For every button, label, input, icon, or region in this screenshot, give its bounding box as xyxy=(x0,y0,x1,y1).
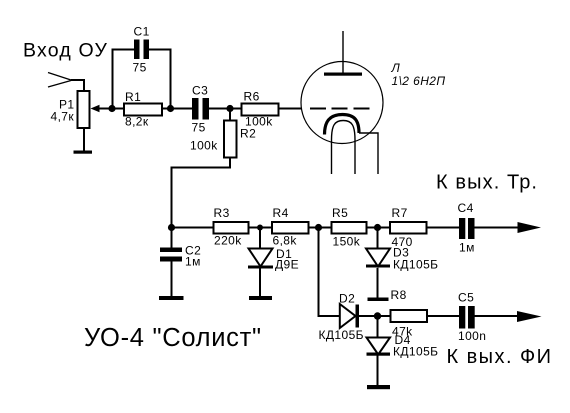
svg-text:R3: R3 xyxy=(214,206,230,220)
svg-text:R2: R2 xyxy=(240,127,256,141)
svg-text:150k: 150k xyxy=(333,235,361,249)
svg-text:100n: 100n xyxy=(458,329,486,343)
svg-text:Вход ОУ: Вход ОУ xyxy=(23,40,108,62)
svg-text:КД105Б: КД105Б xyxy=(393,345,438,359)
svg-text:R8: R8 xyxy=(391,288,407,302)
svg-text:C4: C4 xyxy=(458,201,474,215)
svg-text:4,7к: 4,7к xyxy=(51,110,75,124)
svg-text:100k: 100k xyxy=(190,139,218,153)
svg-text:C1: C1 xyxy=(134,25,150,39)
svg-text:C5: C5 xyxy=(458,291,474,305)
svg-text:220k: 220k xyxy=(214,234,242,248)
svg-text:6,8k: 6,8k xyxy=(273,234,298,248)
svg-text:1м: 1м xyxy=(185,255,201,269)
svg-text:75: 75 xyxy=(133,61,147,75)
svg-text:К вых. Тр.: К вых. Тр. xyxy=(436,171,538,193)
svg-text:75: 75 xyxy=(192,121,206,135)
svg-text:Л: Л xyxy=(391,61,401,75)
svg-text:1\2 6Н2П: 1\2 6Н2П xyxy=(392,74,446,88)
svg-text:1м: 1м xyxy=(459,241,475,255)
svg-text:Д9Е: Д9Е xyxy=(275,258,299,272)
svg-text:R7: R7 xyxy=(392,206,408,220)
svg-text:C3: C3 xyxy=(192,83,208,97)
svg-text:R6: R6 xyxy=(244,90,260,104)
svg-text:8,2к: 8,2к xyxy=(125,114,149,128)
svg-text:УО-4 "Солист": УО-4 "Солист" xyxy=(84,324,262,352)
svg-text:КД105Б: КД105Б xyxy=(393,258,438,272)
svg-text:D2: D2 xyxy=(339,292,355,306)
svg-text:R4: R4 xyxy=(273,206,289,220)
svg-text:R1: R1 xyxy=(125,90,141,104)
svg-text:К вых. ФИ: К вых. ФИ xyxy=(447,346,553,368)
svg-text:R5: R5 xyxy=(332,206,348,220)
svg-text:КД105Б: КД105Б xyxy=(319,328,364,342)
